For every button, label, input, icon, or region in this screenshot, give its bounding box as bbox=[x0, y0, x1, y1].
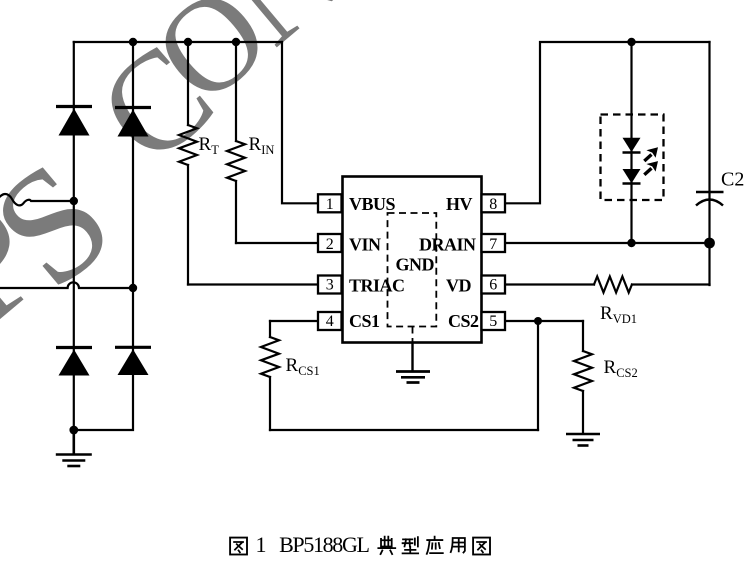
IC ground stub bbox=[412, 327, 414, 344]
node junction top rail RIN bbox=[232, 38, 240, 46]
ground IC bbox=[396, 372, 430, 383]
svg-text:VIN: VIN bbox=[349, 234, 381, 254]
diode D1 top-left bbox=[56, 107, 92, 136]
svg-text:3: 3 bbox=[326, 277, 334, 294]
node junction CS2 net bbox=[534, 317, 542, 325]
svg-text:1: 1 bbox=[256, 532, 267, 557]
LED light arrow 1 bbox=[644, 147, 658, 161]
LED 1 bbox=[623, 138, 641, 153]
wire pin6 VD stub bbox=[505, 283, 710, 285]
caption 图 1 BP5188GL 典型应用图 bbox=[230, 537, 490, 555]
svg-text:RCS1: RCS1 bbox=[286, 355, 320, 378]
wire top-left rail bbox=[74, 41, 282, 43]
wire bridge left leg bbox=[73, 42, 75, 453]
resistor RCS2 zigzag bbox=[574, 351, 592, 391]
wire pin4 CS1 stub bbox=[270, 320, 318, 322]
svg-text:CS1: CS1 bbox=[349, 311, 380, 331]
wire pin2 VIN stub bbox=[236, 242, 318, 244]
svg-text:5: 5 bbox=[489, 313, 497, 330]
svg-text:CS2: CS2 bbox=[448, 311, 479, 331]
wire AC input 1 squiggle bbox=[0, 194, 74, 205]
LED light arrow 2 bbox=[644, 161, 658, 175]
svg-text:8: 8 bbox=[489, 196, 497, 213]
diode D2 top-right bbox=[115, 108, 151, 137]
ground bridge bbox=[56, 430, 92, 466]
svg-text:BP5188GL: BP5188GL bbox=[279, 532, 369, 557]
svg-text:RVD1: RVD1 bbox=[600, 303, 637, 326]
resistor RVD1 zigzag bbox=[594, 277, 632, 293]
node junction bridge bottom ground bbox=[69, 426, 78, 435]
dashed GND box inside IC bbox=[388, 213, 437, 327]
svg-text:1: 1 bbox=[326, 196, 334, 213]
pin 5 box and number bbox=[482, 312, 506, 330]
svg-text:VBUS: VBUS bbox=[349, 194, 396, 214]
node junction DRAIN net LED branch bbox=[627, 239, 635, 247]
wire RCS2 branch bbox=[582, 321, 584, 433]
svg-text:DRAIN: DRAIN bbox=[419, 234, 476, 254]
wire pin5 CS2 net bbox=[505, 321, 583, 430]
node junction top rail LED branch bbox=[627, 38, 635, 46]
node junction AC1 bridge left leg bbox=[70, 197, 78, 205]
pin 6 box and number bbox=[482, 276, 506, 294]
wire RIN branch vertical bbox=[235, 42, 237, 243]
pin 7 box and number bbox=[482, 234, 506, 253]
pin 2 box and number bbox=[318, 234, 342, 253]
wire pin7 DRAIN net bbox=[505, 242, 710, 244]
wire bridge right leg bbox=[74, 42, 133, 430]
ground RCS2 bbox=[566, 434, 600, 446]
wire LED branch bbox=[630, 42, 632, 243]
LED dashed box bbox=[601, 115, 664, 201]
wire C2 branch bbox=[708, 42, 710, 285]
resistor RCS1 zigzag bbox=[261, 337, 279, 377]
IC U1 BP5188GL body bbox=[343, 177, 482, 343]
svg-text:2: 2 bbox=[326, 236, 334, 253]
wire AC input 2 with hop bbox=[0, 282, 133, 288]
svg-text:TRIAC: TRIAC bbox=[349, 275, 405, 295]
wire bottom rail bbox=[270, 429, 538, 431]
wire pin1 VBUS branch bbox=[282, 42, 318, 203]
wire pin3 TRIAC stub bbox=[188, 283, 318, 285]
capacitor C2 bbox=[696, 192, 724, 206]
svg-text:C2: C2 bbox=[721, 169, 744, 191]
diode D4 bottom-right bbox=[115, 347, 151, 375]
resistor RIN zigzag bbox=[227, 141, 245, 181]
svg-text:6: 6 bbox=[489, 277, 497, 294]
svg-text:HV: HV bbox=[446, 194, 473, 214]
node junction top rail D2 bbox=[129, 38, 137, 46]
pin 1 box and number bbox=[318, 194, 342, 213]
node junction AC2 bridge right leg bbox=[129, 284, 137, 292]
node junction DRAIN net C2 branch bbox=[704, 238, 715, 249]
pin 8 box and number bbox=[482, 194, 506, 213]
wire RT branch vertical bbox=[187, 42, 189, 285]
svg-text:4: 4 bbox=[326, 313, 334, 330]
node junction top rail RT bbox=[184, 38, 192, 46]
svg-text:RIN: RIN bbox=[249, 134, 275, 157]
wire pin8 HV branch bbox=[505, 42, 710, 203]
svg-text:GND: GND bbox=[396, 255, 435, 275]
svg-text:7: 7 bbox=[489, 236, 497, 253]
svg-text:RCS2: RCS2 bbox=[604, 357, 638, 380]
pin 3 box and number bbox=[318, 276, 342, 294]
svg-text:VD: VD bbox=[446, 275, 471, 295]
pin 4 box and number bbox=[318, 312, 342, 330]
LED 2 bbox=[623, 169, 641, 184]
watermark bbox=[0, 0, 366, 359]
diode D3 bottom-left bbox=[56, 348, 92, 376]
wire RCS1 branch bbox=[269, 321, 271, 430]
resistor RT zigzag bbox=[179, 125, 197, 165]
